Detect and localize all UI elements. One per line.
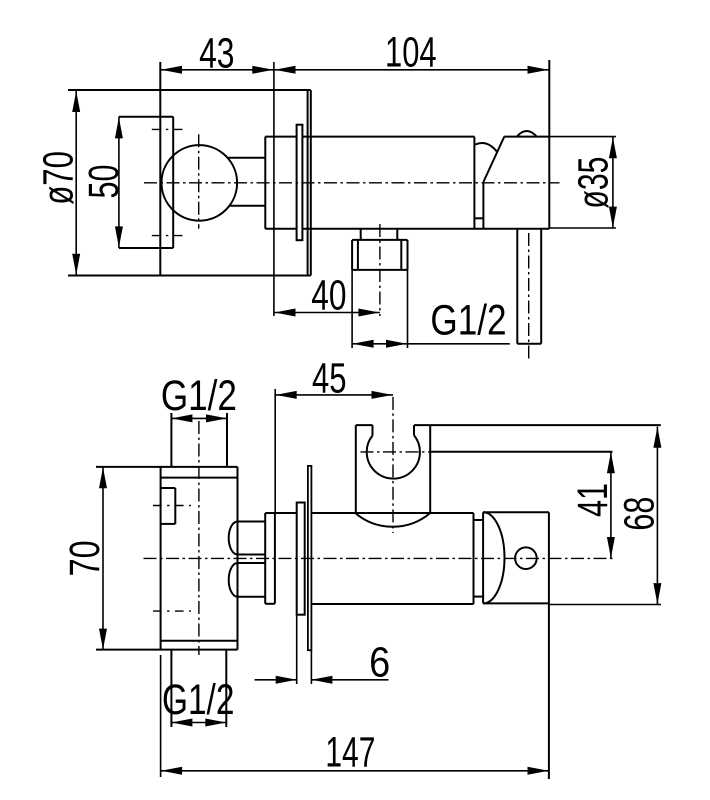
handle block <box>483 137 504 182</box>
centerline cup horizontal <box>361 451 431 453</box>
connector rod <box>228 157 266 159</box>
top inlet nipple G1/2 <box>170 413 172 467</box>
knob bump <box>517 131 537 137</box>
dimension ø35 <box>549 136 616 138</box>
connection finger 2 <box>238 562 266 564</box>
outlet nut <box>352 239 407 241</box>
centerline pipe vertical <box>528 233 530 359</box>
wall housing box <box>68 89 311 91</box>
dimension 104 <box>274 69 549 71</box>
svg-text:43: 43 <box>199 30 234 77</box>
connection finger 1 <box>238 521 266 523</box>
dimension G1/2 top <box>171 417 227 419</box>
svg-text:40: 40 <box>311 272 346 319</box>
backplate strip <box>265 512 297 514</box>
dimension 45 <box>275 394 393 396</box>
svg-text:50: 50 <box>80 165 127 199</box>
dimension ø70 <box>75 91 77 275</box>
bracket thread centerline ticks <box>152 128 183 130</box>
wall flange plate <box>297 503 305 615</box>
holder inner circle arc <box>367 435 420 478</box>
dimension G1/2 (outlet) <box>351 270 353 348</box>
wall face inner line <box>307 90 309 276</box>
svg-text:41: 41 <box>569 483 616 517</box>
centerline nut vertical <box>379 224 381 316</box>
lever arc <box>475 143 497 151</box>
svg-text:G1/2: G1/2 <box>162 676 234 723</box>
holder bottom arc <box>356 513 430 527</box>
centerline body vertical <box>198 421 200 655</box>
dimension 68 <box>549 604 661 606</box>
svg-text:147: 147 <box>325 729 375 776</box>
svg-text:G1/2: G1/2 <box>161 372 237 419</box>
svg-text:G1/2: G1/2 <box>430 297 506 344</box>
dimension 40 <box>274 312 380 314</box>
dimension 41 <box>610 452 612 558</box>
handle screw circle <box>515 547 537 569</box>
svg-text:6: 6 <box>369 638 390 685</box>
svg-text:104: 104 <box>385 29 437 76</box>
bottom outlet nipple G1/2 <box>170 650 172 727</box>
escutcheon flange (front) <box>297 125 303 241</box>
centerline horizontal bottom <box>144 557 616 559</box>
set screw boss <box>161 487 176 489</box>
shower hose pipe <box>516 229 518 344</box>
dimension 43 <box>160 69 274 71</box>
handle dome (half ellipse) <box>483 512 504 603</box>
svg-text:70: 70 <box>61 540 108 576</box>
svg-text:45: 45 <box>312 354 347 401</box>
svg-text:ø70: ø70 <box>35 151 82 205</box>
dimension 6 <box>296 615 298 684</box>
ball joint <box>162 145 238 221</box>
neck to handle <box>474 519 484 521</box>
centerline ball vertical <box>198 134 200 228</box>
dimension 70 <box>102 467 104 650</box>
dimension 147 <box>160 655 162 777</box>
svg-text:ø35: ø35 <box>570 157 617 209</box>
centerline cup vertical <box>392 397 394 533</box>
mixer cylinder <box>264 137 266 229</box>
handle block front <box>483 511 549 513</box>
boss centerline ticks <box>153 505 191 507</box>
dimension 50 <box>115 117 123 138</box>
mounting bracket <box>119 116 173 118</box>
mixer cylinder front <box>311 512 473 514</box>
svg-text:68: 68 <box>616 497 663 531</box>
wall line <box>308 466 312 650</box>
dimension G1/2 bottom <box>171 722 226 724</box>
valve body <box>96 466 238 468</box>
centerline horizontal top <box>144 182 560 184</box>
wall front extension line <box>273 62 275 316</box>
outlet neck <box>360 229 362 240</box>
holder arm bar <box>430 424 661 426</box>
shower holder cup <box>356 424 373 426</box>
